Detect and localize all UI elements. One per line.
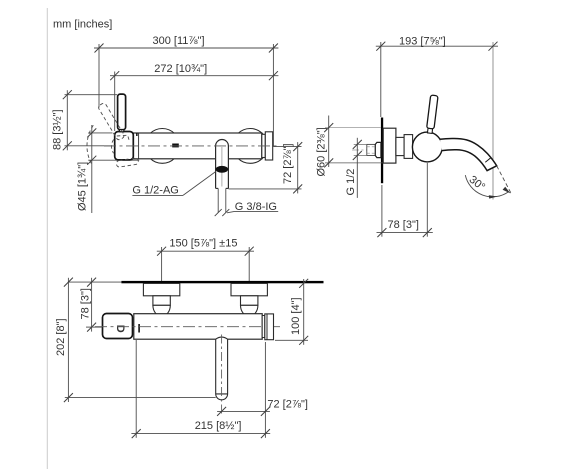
dia60 dim line [328,116,330,168]
dim 193 tick right [489,42,498,51]
dim 150 tick left [157,247,166,256]
dim 193 tick left [376,42,385,51]
svg-text:272 [10¾"]: 272 [10¾"] [154,63,207,75]
spout pipe (bottom view) fill [216,337,228,400]
svg-text:G 1/2-AG: G 1/2-AG [132,185,178,197]
dim 150 tick right [245,247,254,256]
svg-text:Ø45 [1¾"]: Ø45 [1¾"] [77,162,89,211]
spout inner line [485,158,490,162]
fitting right cover [231,283,267,295]
spout pipe centerline [221,335,223,414]
tube joint top tick [136,133,138,136]
dim 193 extension right (long) [492,42,494,200]
spout pipe outline [216,337,228,400]
svg-text:mm [inches]: mm [inches] [53,19,112,31]
end cap (bottom) [265,314,274,340]
rosette circle right [233,129,268,164]
lever stem [119,130,124,132]
nipple flange [375,142,381,157]
svg-text:G 1/2: G 1/2 [345,169,357,196]
tick mark on tube [138,324,140,333]
dim 202 bottom extension [65,397,216,399]
lever (side) [426,95,438,134]
dim 88 tick bottom [63,141,72,150]
dashed cartridge hint inside block [117,135,129,140]
dim 300 extension line left [98,44,100,108]
svg-text:193 [7⅝"]: 193 [7⅝"] [399,35,446,47]
dim 72 tick bottom [293,184,302,193]
dim 100 bottom extension [275,339,308,341]
lever (front) [118,94,126,130]
dim 78 (side) line [377,232,433,234]
G 1/2 top extension [354,143,367,145]
dim 272 tick left [110,71,119,80]
dim 300 tick left [95,44,104,53]
G 1/2 tick bottom [353,151,362,160]
G3/8 pipe left edge [217,188,219,212]
svg-text:88 [3½"]: 88 [3½"] [52,109,64,150]
leader G3/8 [227,211,235,212]
body circle (side) [412,132,442,162]
dim 72 (bottom) line [217,410,270,412]
tube joint line [138,133,140,159]
G 1/2 bottom extension [354,155,367,157]
dashed swing arc inner [112,140,114,154]
dim 150 extension right [248,247,250,317]
nipple centerline [352,149,381,151]
dim 202 tick bottom [64,393,73,402]
svg-text:78 [3"]: 78 [3"] [388,219,419,231]
end ring [262,134,266,157]
svg-text:215 [8½"]: 215 [8½"] [195,420,242,432]
dim 72 tick right [261,407,270,416]
rosette circle left [145,129,180,164]
dim 72 tick top [293,142,302,151]
dia60 top extension [325,127,381,129]
dim 215 extension left [135,340,137,438]
dim 150 line [157,250,254,252]
valve block [115,132,134,160]
end cap inner line [266,314,268,340]
dim 72 tick left [217,407,226,416]
fitting right neck [241,296,258,306]
dim 100 tick bottom [299,336,308,345]
body tube (bottom view) [134,314,262,340]
dim 150 extension left [161,247,163,317]
dim 215 extension right [264,342,266,438]
end cap [265,132,272,160]
dim dia45 tick top [87,128,96,137]
dim 78 bottom extension [86,326,102,328]
outlet pipe inner line [221,147,223,187]
dim 72 right bottom extension [229,188,302,190]
svg-text:72 [2⅞"]: 72 [2⅞"] [267,399,308,411]
dim 78 tick bottom [87,323,96,332]
dim 300 extension line right [272,44,274,146]
outlet pipe outline [216,140,229,189]
dim 215 tick right [261,429,270,438]
dim dia45 line [91,125,93,213]
svg-text:300 [11⅞"]: 300 [11⅞"] [153,35,205,47]
30 deg arrow at vertical [489,195,498,198]
30 deg dashed ray [497,166,512,194]
dia60 tick top [324,123,333,132]
spout [440,139,497,171]
centerline (bottom view) [95,326,280,328]
dashed lever position up-left [98,102,126,141]
dim 100 tick top [299,279,308,288]
svg-text:150 [5⅞"] ±15: 150 [5⅞"] ±15 [169,237,237,249]
dia60 tick bottom [324,158,333,167]
wall line (bottom view) [121,281,323,283]
G3/8 tick left [215,209,222,216]
dashed swing arc outer [87,125,93,165]
dim 88 line [66,90,68,150]
dim 78 (side) extension right [426,163,428,237]
body tube [133,133,261,159]
dim 88 top extension [65,94,118,96]
dim 72 right top extension [273,146,302,148]
svg-text:202 [8"]: 202 [8"] [55,318,67,356]
fitting left cover [143,283,179,295]
dia60 bottom extension [325,162,396,164]
dim 78 tick left [377,228,386,237]
outlet pipe shoulder [216,187,219,189]
dim 272 line [110,75,278,77]
dim 202 line [67,278,69,402]
dim dia45 bottom extension [88,159,139,161]
G 1/2 dim line [356,138,358,198]
svg-text:Ø60 [2⅜"]: Ø60 [2⅜"] [316,127,328,176]
leader to ellipse [183,172,216,196]
label G 3/8-IG underline [235,210,279,212]
fitting left neck [153,296,170,306]
dim 100 line [303,279,305,345]
svg-text:78 [3"]: 78 [3"] [80,288,92,319]
dim 78 (side) extension left [381,185,383,237]
dim 72 right line [297,142,299,193]
dashed lever position down (under tube) [116,158,139,168]
handle block (bottom) [103,314,133,339]
dim 193 extension left [380,42,382,117]
ring B [404,135,413,159]
dim 215 line [131,433,270,435]
dim 78 (bottom) line [91,278,93,332]
dim dia45 tick bottom [87,156,96,165]
dim 272 extension line left [114,72,116,132]
dim dia45 top extension [88,132,112,134]
dim 193 line [376,45,498,47]
label G 1/2-AG underline [132,194,183,196]
30 deg arc [465,175,508,197]
fitting left dome [153,305,170,316]
wall line (side view) [381,118,383,184]
nipple thread dashes [367,146,376,148]
dim 300 line [94,47,278,49]
svg-text:100 [4"]: 100 [4"] [290,297,302,335]
dim 300 tick right [269,44,278,53]
dim 215 tick left [132,429,141,438]
centerline front view [104,145,280,147]
fitting right dome [241,305,258,316]
G3/8 tick right [222,209,229,216]
svg-text:D: D [114,325,126,333]
outlet pipe G1/2 (front) fill [216,140,229,189]
dim 202 tick top [64,278,73,287]
end ring (bottom) [262,316,265,338]
in-wall nipple [367,144,376,155]
page margin rule [46,8,48,469]
ring A [396,137,404,155]
dim 88 bottom extension [65,145,113,147]
dim 272 tick right [269,71,278,80]
dim 88 tick top [63,90,72,99]
wall extension left thin [68,281,122,283]
30 deg arrow at ray [503,187,511,194]
black ellipse connector [216,166,229,173]
dim 78 tick right [423,228,432,237]
dim 78 tick top [87,278,96,287]
rosette (side) [383,128,396,163]
G 1/2 tick top [353,140,362,149]
svg-text:72 [2⅞"]: 72 [2⅞"] [282,143,294,184]
G3/8 pipe right edge [225,188,227,212]
logo mark on tube [172,144,179,148]
